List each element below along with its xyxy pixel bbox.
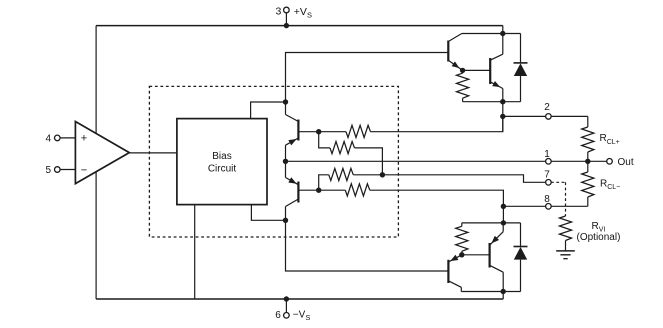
pin 7: [544, 170, 551, 185]
resistor RVI: [559, 216, 571, 251]
wire node A to bias box top: [251, 102, 286, 119]
label RCL-: [600, 179, 620, 192]
pin 2: [544, 102, 551, 119]
wire RCL- bottom to pin 8: [551, 205, 588, 207]
wire output node to Q4 emitter: [285, 161, 287, 177]
label RCL+: [600, 133, 620, 146]
svg-text:6: 6: [275, 310, 281, 321]
wire row C rise: [319, 175, 329, 190]
wire dashed pin7 branch: [551, 182, 566, 216]
wire row B drop: [319, 132, 330, 148]
node I pin8 junction: [501, 204, 506, 209]
wire pin5 to op-amp -: [58, 169, 75, 171]
pin 8: [544, 194, 551, 209]
pin 5: [45, 165, 60, 176]
node K Q6 emitter junction: [459, 252, 464, 257]
node M RCL junction on output rail: [585, 159, 590, 164]
wire node A down to Q3 collector: [285, 102, 287, 115]
wire Q5 base: [462, 254, 490, 256]
wire output rail: [286, 160, 607, 162]
resistor RA: [346, 125, 371, 137]
resistor R2: [456, 223, 468, 255]
wire row D from Q4 base: [298, 189, 345, 191]
label Optional: [577, 232, 621, 243]
svg-text:Bias: Bias: [212, 151, 231, 162]
svg-text:4: 4: [45, 133, 51, 144]
wire pin8 line left: [503, 205, 545, 207]
resistor RCL-: [582, 161, 594, 206]
transistor Q2: [490, 54, 503, 88]
wire node C to bias box bottom: [251, 205, 285, 221]
resistor RC: [329, 168, 354, 180]
svg-text:2: 2: [544, 102, 550, 113]
transistor Q4: [286, 177, 299, 206]
wire Q1 base run: [286, 53, 449, 103]
node L cluster bottom junction: [501, 289, 506, 294]
wire row A from Q3 base: [298, 131, 346, 133]
wire Q2 collector up: [502, 34, 504, 55]
node B output-rail junction: [283, 159, 288, 164]
wire Q5 emitter up: [502, 223, 504, 232]
node A top junction: [283, 99, 288, 104]
wire to pin 2: [503, 115, 588, 117]
transistor Q1: [448, 34, 462, 71]
wire +Vs top rail: [96, 25, 503, 27]
resistor R1: [457, 70, 469, 101]
diode D2: [514, 223, 528, 292]
dashed boundary box: [149, 86, 398, 237]
wire top cluster bottom line: [463, 101, 521, 103]
svg-text:(Optional): (Optional): [577, 232, 621, 243]
node D row C junction: [380, 172, 385, 177]
wire pin2 column: [502, 102, 504, 132]
svg-text:8: 8: [544, 194, 550, 205]
svg-text:−: −: [81, 164, 87, 176]
transistor Q3: [286, 115, 299, 146]
wire Q2 emitter down: [502, 89, 504, 102]
bias circuit U2: [177, 119, 267, 205]
node C bottom junction: [283, 218, 288, 223]
wire Q3 emitter to output node: [285, 145, 287, 161]
wire bottom cluster bottom line: [461, 291, 520, 293]
node F Q1 emitter junction: [460, 68, 465, 73]
wire Q1 collector line: [462, 33, 521, 35]
pin 3 +Vs: [275, 6, 312, 29]
svg-text:7: 7: [544, 170, 550, 181]
resistor RCL+: [582, 116, 594, 161]
wire left -Vs tap from op-amp bottom: [95, 172, 97, 299]
wire Q5 collector down: [502, 272, 504, 291]
diode D1: [514, 34, 528, 102]
wire row D to pin8 column: [370, 190, 504, 223]
ground: [556, 251, 575, 259]
wire op-amp output to bias circuit: [129, 152, 177, 154]
wire row C to pin 7: [353, 175, 545, 183]
pin 4: [45, 133, 60, 144]
wire pin4 to op-amp +: [58, 137, 75, 139]
pin 1: [544, 149, 551, 164]
wire bias box bottom to -Vs rail: [194, 205, 196, 299]
node row D junction: [316, 188, 321, 193]
node E collector junction: [500, 31, 505, 36]
label RVI: [592, 221, 606, 234]
svg-text:3: 3: [275, 6, 281, 18]
wire -Vs rail jog: [502, 292, 504, 300]
node G cluster bottom junction: [500, 99, 505, 104]
pin Out: [607, 157, 634, 168]
wire Q6 base run: [286, 220, 449, 271]
transistor Q6: [448, 255, 461, 288]
svg-text:5: 5: [45, 165, 51, 176]
resistor RD: [345, 184, 370, 196]
svg-text:Circuit: Circuit: [208, 163, 237, 174]
svg-text:Out: Out: [618, 157, 634, 168]
svg-text:1: 1: [544, 149, 550, 160]
wire Q6 collector corner: [460, 287, 462, 291]
wire +Vs rail drop to collector line: [502, 26, 504, 34]
node row A junction: [316, 129, 321, 134]
wire left +Vs tap to op-amp top: [95, 26, 97, 134]
wire row A to pin2 column: [371, 116, 503, 131]
op-amp U1: [75, 122, 129, 184]
pin 6 -Vs: [275, 296, 310, 322]
node J cluster top junction: [501, 220, 506, 225]
wire row B to node D: [355, 148, 383, 175]
svg-text:+: +: [81, 133, 87, 145]
wire bottom cluster top line: [462, 222, 521, 224]
transistor Q5: [490, 232, 504, 273]
wire -Vs bottom rail: [96, 298, 503, 300]
wire Q2 base: [463, 69, 491, 71]
wire Q4 collector down: [285, 207, 287, 221]
node H pin2 junction: [500, 114, 505, 119]
resistor RB: [330, 142, 355, 154]
